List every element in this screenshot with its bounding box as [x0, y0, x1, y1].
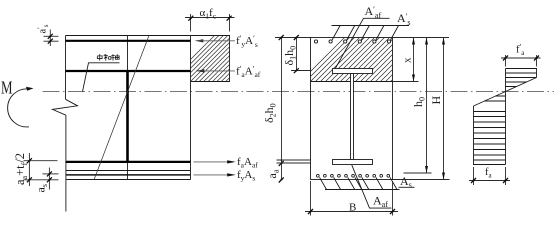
dim H line [443, 38, 445, 180]
svg-text:H: H [429, 96, 443, 105]
dim f'a extension lines [505, 55, 507, 67]
dim a's line [49, 30, 51, 47]
section compression zone hatch [301, 32, 441, 82]
leader fyAs [194, 174, 234, 176]
neutral axis label 中和轴 (drawn glyphs) [97, 54, 119, 61]
svg-text:aa+tf/2: aa+tf/2 [13, 153, 29, 185]
bottom rebar circles As [316, 174, 389, 177]
steel top flange line f'aA'af [66, 70, 191, 72]
dim aa+tf/2 line [28, 153, 30, 186]
B dim extension lines [310, 181, 312, 216]
neutral axis leader underline [83, 63, 120, 92]
dim a's extension lines [44, 35, 59, 37]
stress top block outline [506, 69, 537, 78]
stress lines above neutral axis [506, 82, 528, 87]
top extension line (section, left) [275, 37, 311, 39]
stress bottom block lines [474, 112, 506, 161]
A's leader slashes [332, 26, 398, 41]
stress block outline [191, 36, 230, 82]
extension at section bottom (right) [393, 179, 450, 181]
svg-text:x: x [402, 57, 414, 63]
beam left edge (lower) [65, 115, 67, 211]
section outline [311, 38, 393, 180]
extension at flange top level (left of section) [277, 159, 311, 161]
steel top flange (section) [333, 69, 373, 74]
svg-text:B: B [349, 202, 356, 214]
extension at flange bottom level (left of section) [277, 162, 311, 164]
crack diagonal [94, 36, 149, 180]
extension at steel flange top (left) [291, 70, 311, 72]
stress bottom block outline [474, 106, 506, 165]
centroid dash-dot axis line [43, 91, 554, 93]
dimension a1fc line [185, 17, 235, 19]
As leader line [325, 189, 400, 191]
beam top edge [66, 35, 230, 37]
steel bottom flange (section) [333, 160, 373, 165]
break zigzag [53, 99, 78, 115]
A's leader line [332, 25, 410, 27]
A'af leader [335, 18, 390, 69]
beam right edge / cut plane [190, 36, 192, 180]
steel web (section) [351, 74, 354, 160]
stress top block lines [506, 73, 537, 78]
dim aa+tf/2 extension lines [24, 160, 58, 162]
dim h0 line [426, 38, 428, 174]
As leader slashes [320, 177, 398, 189]
dim fa line [469, 180, 510, 182]
dimension a1fc extension lines [190, 14, 192, 32]
dim x line [413, 38, 415, 82]
stirrup vertical line [127, 36, 129, 180]
leader f'aA'af [196, 69, 205, 72]
Aaf leader [352, 165, 392, 208]
stress lines below neutral axis [484, 96, 506, 101]
dim delta2 h0 line [281, 38, 283, 180]
steel web (elevation) [126, 71, 129, 162]
leader faAaf [194, 161, 234, 163]
moment arc arrow [8, 89, 29, 127]
compression rebar line f'yA's [66, 40, 191, 42]
steel bottom flange line faAaf [66, 161, 191, 163]
svg-text:f′yA′s: f′yA′s [236, 34, 258, 49]
concrete stress block hatch (elevation) [169, 32, 276, 82]
beam bottom edge [66, 179, 191, 181]
dim delta1 h0 line [296, 38, 298, 71]
extension at tension centroid (right) [404, 172, 432, 174]
bottom flange underside line [66, 170, 191, 172]
B dim line [305, 211, 398, 213]
top rebar circles A's [314, 40, 390, 43]
stress transition diagonal [474, 78, 537, 107]
dim f'a line [501, 57, 541, 59]
top extension line (section, right) [393, 37, 450, 39]
svg-text:M: M [1, 79, 13, 99]
dim as line [48, 168, 50, 190]
stress diagram center axis [505, 69, 507, 165]
dim fa extension lines [473, 167, 475, 185]
extension at compression zone bottom (right) [393, 81, 419, 83]
tension rebar line fyAs [66, 174, 191, 176]
beam left edge (upper) [65, 36, 67, 100]
leader f'yA's [195, 39, 204, 42]
dim as extension line [43, 173, 59, 175]
compression zone bottom edge [311, 81, 393, 83]
